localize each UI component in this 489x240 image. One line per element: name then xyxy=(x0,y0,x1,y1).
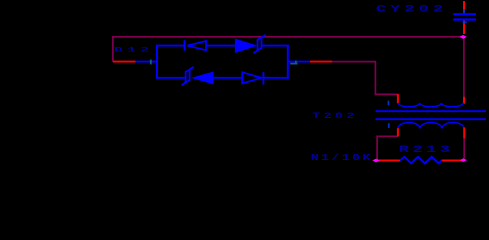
red stub: bottom winding right lead xyxy=(463,127,465,138)
diode network D12 xyxy=(136,35,311,86)
wire: net top bus (maroon) from D12 box to CY202 junction xyxy=(113,37,464,62)
svg-text:R213: R213 xyxy=(399,144,454,156)
red stub: top winding left lead xyxy=(397,94,399,103)
red top lead of CY202 xyxy=(463,1,465,13)
zener D12b filled triangle (top-right, points right) xyxy=(235,39,256,52)
wire: maroon from D12 pin2 to transformer top winding pin1 xyxy=(332,62,398,95)
svg-text:D12: D12 xyxy=(114,47,154,54)
junction node: CY202 / top bus / transformer xyxy=(459,35,466,39)
svg-text:CY202: CY202 xyxy=(376,4,447,15)
resistor R213 zigzag xyxy=(400,157,442,164)
red stub: bottom winding left lead xyxy=(397,128,399,136)
transformer T202 xyxy=(376,94,487,138)
plate 1 of CY202 xyxy=(453,13,476,15)
wire: red bottom rail left (junction to R213) xyxy=(376,159,400,161)
bottom winding arcs xyxy=(398,123,464,129)
svg-text:N1/10K: N1/10K xyxy=(311,153,373,162)
pin number 1 tick of top winding xyxy=(388,101,390,106)
red stub: top winding right lead xyxy=(463,97,465,104)
top winding arcs xyxy=(398,103,463,107)
right rail of D12 xyxy=(287,45,289,79)
core line 1 xyxy=(376,110,487,112)
pin 1 lead of D12 xyxy=(136,61,158,63)
left rail of D12 xyxy=(156,45,158,79)
zener D12c double bent cathode bar (bottom-left) xyxy=(182,67,194,86)
capacitor CY202 xyxy=(453,1,476,34)
wire: maroon from bottom winding pin3 to left bottom junction xyxy=(377,136,398,159)
junction node: bottom-right xyxy=(460,158,467,162)
svg-text:T202: T202 xyxy=(312,112,358,121)
wire: maroon vertical CY202 junction down to top winding pin2 xyxy=(463,37,465,98)
wire: bottom branch segments xyxy=(156,77,289,79)
diode D12d cathode bar xyxy=(262,72,264,84)
pin number tick of bottom winding xyxy=(388,123,390,128)
core line 2 xyxy=(376,118,487,120)
junction node: bottom-left (N1 net) xyxy=(372,159,379,163)
wire: red segment from D12 pin2 xyxy=(310,61,332,63)
zener D12b double bent cathode bar xyxy=(254,35,266,54)
wire: top branch segments xyxy=(156,45,289,47)
zener D12c filled triangle (points left) xyxy=(193,72,213,84)
wire: maroon from bottom winding pin4 down to right bottom junction xyxy=(463,138,465,159)
pin number 2 of D12 xyxy=(290,61,297,64)
pin number 1 of D12 xyxy=(150,60,152,65)
diode D12a triangle outline xyxy=(187,41,206,50)
plate 2 of CY202 xyxy=(453,18,476,20)
wire: red segment into D12 pin1 xyxy=(113,61,136,63)
diode D12a cathode bar (top-left, points left) xyxy=(184,40,186,51)
diode D12d triangle outline (bottom-right, points right) xyxy=(242,72,261,83)
pin 2 lead of D12 xyxy=(288,61,310,63)
wire: red bottom rail right (R213 to junction) xyxy=(442,159,464,161)
red bottom lead of CY202 xyxy=(463,21,465,34)
pin 1 tick of CY202 xyxy=(463,9,465,13)
pin 2 tick of CY202 xyxy=(463,21,467,23)
